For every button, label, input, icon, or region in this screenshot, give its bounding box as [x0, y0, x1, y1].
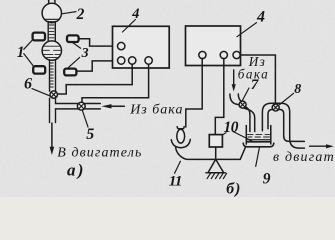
terminal T1: [199, 51, 206, 58]
svg-text:1: 1: [17, 44, 25, 61]
terminal C4: [145, 57, 152, 64]
terminal C2: [118, 57, 125, 64]
svg-text:3: 3: [81, 46, 89, 61]
relay box 10: [209, 135, 222, 147]
arrow from tank (right diagram): [232, 70, 236, 92]
svg-text:4: 4: [256, 8, 265, 25]
svg-text:в двигат: в двигат: [273, 150, 335, 165]
svg-text:бака: бака: [238, 67, 269, 82]
terminal C3: [129, 57, 136, 64]
fuel level in chamber 9: [247, 135, 270, 142]
wire relay 10 to ground: [215, 147, 217, 159]
fuel pipe from burette to valve 5 and tank: [50, 98, 101, 122]
arrow to engine (left diagram): [50, 123, 55, 155]
terminal T3: [233, 51, 240, 58]
leader label 6: [32, 89, 50, 97]
leader label 9: [256, 148, 260, 167]
svg-text:10: 10: [224, 119, 239, 136]
arrow from tank (left diagram): [102, 104, 125, 108]
svg-text:9: 9: [263, 170, 271, 187]
leader label 3 upper: [72, 42, 81, 48]
bulb 2 (upper measuring bulb): [42, 3, 61, 22]
inlet pipe into valve 7: [230, 94, 241, 105]
svg-text:4: 4: [131, 6, 139, 22]
siphon pipe 8 with outlet: [262, 103, 304, 148]
photocell box 3 upper: [67, 35, 79, 42]
burette neck top: [49, 0, 55, 4]
leader label 1 upper: [24, 39, 33, 49]
svg-text:11: 11: [169, 172, 182, 189]
solenoid valve 6: [50, 91, 57, 98]
leader label 10 left: [219, 133, 226, 138]
leader label 1 lower: [24, 54, 34, 67]
leader label 4 left: [123, 20, 136, 33]
terminal C1: [118, 42, 125, 49]
svg-text:б): б): [226, 180, 241, 197]
burette neck tube between bulbs: [48, 21, 55, 41]
svg-text:6: 6: [24, 76, 32, 93]
svg-text:5: 5: [86, 126, 94, 143]
ground bus wire to chamber 9: [176, 146, 246, 159]
ground symbol: [206, 159, 227, 178]
jet valve 8: [272, 104, 279, 111]
signal bell 11: [171, 127, 190, 148]
lamp box 1 upper: [33, 33, 45, 41]
leader label 10 right into chamber: [233, 132, 253, 142]
control unit 4 (right): [186, 26, 241, 66]
lamp box 1 lower: [33, 66, 45, 73]
svg-text:а): а): [67, 160, 86, 179]
leader label 11: [175, 161, 181, 173]
leader label 7: [242, 88, 249, 102]
wire C3 to valve 6: [58, 64, 133, 94]
pipe valve 7 to float chamber: [244, 107, 255, 132]
wire C4 to valve 5: [82, 64, 149, 102]
svg-text:Из бака: Из бака: [129, 103, 183, 118]
leader label 4 right: [237, 23, 257, 37]
svg-text:2: 2: [76, 6, 85, 23]
wire T1 to signal bell 11: [186, 58, 202, 127]
leader label 8: [280, 93, 294, 104]
lower bulb of burette: [42, 41, 61, 60]
control unit 4 (left): [113, 26, 170, 68]
leader label 3 lower: [68, 57, 79, 67]
wire T3 to valve 8: [240, 55, 275, 104]
leader label 5: [83, 111, 89, 127]
wire photocell 3 upper to terminal C1: [79, 39, 117, 46]
svg-text:8: 8: [294, 82, 301, 97]
float chamber 9: [243, 126, 274, 147]
jet valve 7: [239, 101, 246, 108]
svg-text:В двигатель: В двигатель: [57, 145, 142, 160]
wire T2 to relay 10: [215, 58, 224, 134]
burette lower tube with graduations: [50, 60, 56, 91]
leader label 2: [62, 12, 76, 14]
outlet arrow to engine (right diagram): [310, 144, 334, 148]
solenoid valve 5: [77, 102, 85, 110]
photocell box 3 lower: [64, 69, 76, 76]
terminal T2: [220, 51, 227, 58]
wire photocell 3 lower to terminal C2: [77, 61, 118, 71]
